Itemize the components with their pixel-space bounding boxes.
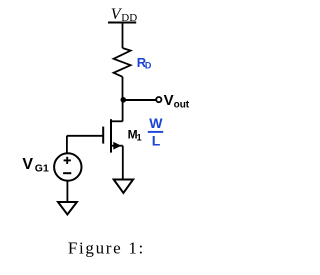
M1 channel bar: [110, 119, 112, 152]
wire: node to M1 drain: [122, 100, 124, 121]
svg-text:1: 1: [137, 133, 142, 143]
ground symbol (below VG1): [58, 202, 77, 215]
svg-text:out: out: [174, 100, 190, 111]
wire: M1 gate to VG1 top (horizontal): [67, 135, 103, 137]
svg-text:G1: G1: [35, 162, 49, 174]
transistor M1 reference label: [128, 128, 142, 143]
net VDD label: [111, 6, 137, 24]
node junction dot (output node): [121, 97, 127, 103]
transistor M1 (NMOS): [103, 119, 123, 152]
wire: VG1 bottom to ground: [66, 181, 68, 202]
source VG1 reference label: [22, 156, 49, 174]
wire: resistor RD bottom to output node: [122, 77, 124, 100]
Vout open terminal: [156, 97, 161, 102]
svg-text:V: V: [22, 156, 33, 173]
wire: gate wire corner down to VG1: [66, 136, 68, 154]
svg-text:V: V: [164, 92, 174, 109]
M1 W/L value label (fraction): [148, 115, 163, 149]
VDD supply bar (underline): [108, 22, 136, 24]
M1 drain lead: [111, 120, 123, 122]
M1 source lead: [111, 145, 123, 147]
wire: VDD bar to resistor RD top: [122, 22, 124, 48]
svg-text:D: D: [145, 60, 152, 70]
wire: M1 source to ground: [122, 146, 124, 179]
svg-text:Figure 1:: Figure 1:: [68, 238, 145, 257]
VG1 minus sign: [63, 172, 71, 174]
M1 gate bar: [102, 127, 104, 144]
svg-text:W: W: [149, 115, 163, 131]
resistor RD value label: [137, 55, 152, 70]
M1 source arrow: [113, 142, 121, 150]
voltage source VG1: [54, 153, 81, 180]
svg-text:L: L: [152, 133, 161, 149]
VG1 plus sign: [64, 159, 71, 161]
wire: node to Vout terminal: [123, 99, 156, 101]
ground symbol (below M1 source): [114, 180, 133, 193]
net Vout label: [164, 92, 190, 110]
resistor RD: [114, 48, 131, 77]
